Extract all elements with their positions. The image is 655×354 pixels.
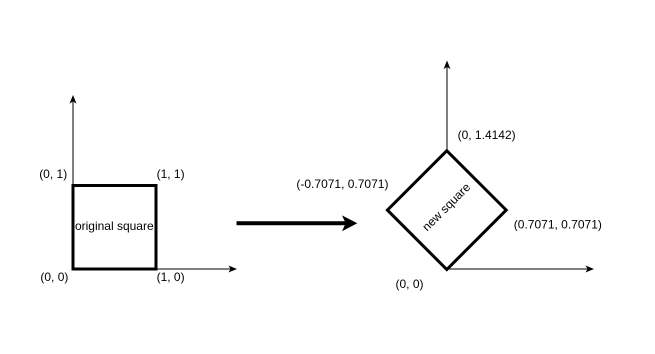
svg-text:(0, 1.4142): (0, 1.4142): [458, 128, 516, 142]
svg-text:(0, 0): (0, 0): [40, 270, 68, 284]
svg-text:(1, 1): (1, 1): [157, 167, 185, 181]
new square (rotated 45deg): [387, 151, 506, 270]
svg-text:(1, 0): (1, 0): [157, 270, 185, 284]
left y-axis: [70, 95, 77, 269]
transform arrow: [237, 215, 358, 231]
right y-axis: [444, 61, 451, 270]
svg-text:(0, 0): (0, 0): [396, 277, 424, 291]
svg-text:(0, 1): (0, 1): [39, 167, 67, 181]
svg-text:(-0.7071, 0.7071): (-0.7071, 0.7071): [296, 177, 388, 191]
svg-text:original square: original square: [75, 219, 154, 233]
original square: [73, 186, 156, 270]
right x-axis: [447, 266, 594, 273]
svg-text:(0.7071, 0.7071): (0.7071, 0.7071): [514, 218, 602, 232]
left x-axis: [73, 266, 237, 273]
